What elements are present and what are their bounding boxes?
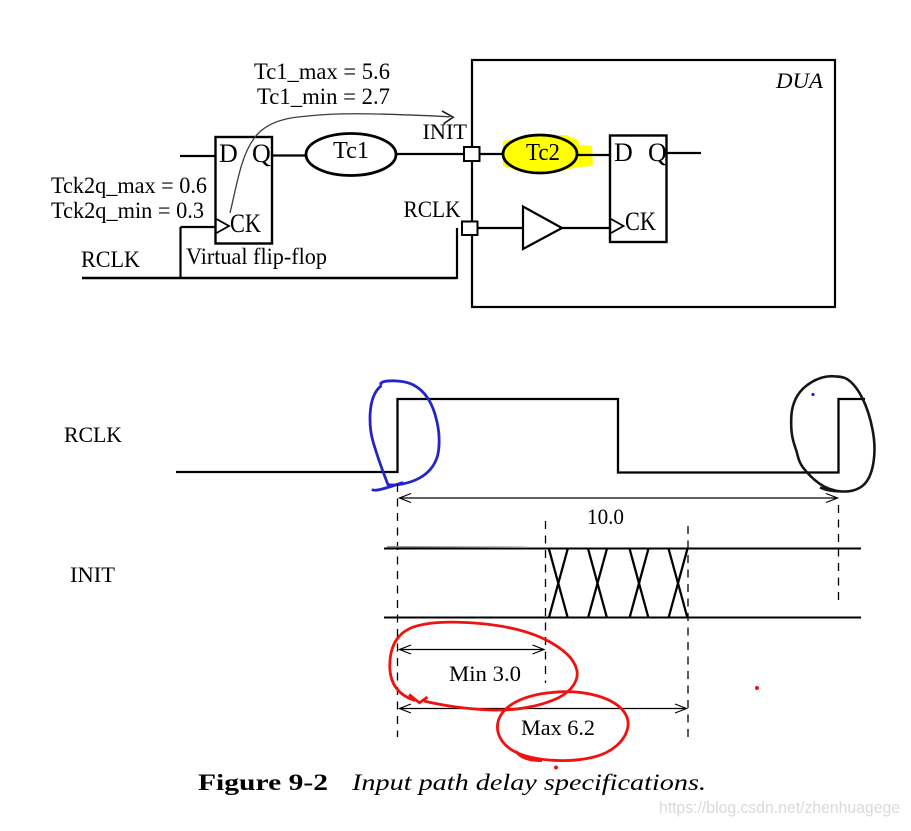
node INIT square [464,147,480,161]
svg-text:Virtual flip-flop: Virtual flip-flop [186,244,327,269]
wire INIT node to Tc2 [480,153,505,155]
svg-text:Tc1_min = 2.7: Tc1_min = 2.7 [257,84,390,109]
INIT bus top rail [384,548,861,550]
flip-flop U2 box [610,136,667,243]
curved annotation arrow from CK to INIT [230,114,450,213]
svg-text:Figure 9-2: Figure 9-2 [198,770,328,795]
red dot right [755,686,759,690]
svg-text:Q: Q [252,139,271,168]
svg-text:INIT: INIT [70,562,116,587]
svg-text:RCLK: RCLK [404,197,461,222]
INIT bus bottom rail [384,617,861,619]
dimension arrow 10.0 [400,494,838,503]
svg-text:Min 3.0: Min 3.0 [449,661,521,686]
wire vertical RCLK rail up to node [456,228,458,279]
INIT bus top rail ghost overlay [387,546,527,549]
wire Q of U1 to Tc1 [272,154,307,156]
delay element Tc1 ellipse [306,134,396,176]
red hand-drawn loop around Max 6.2 [497,692,628,761]
svg-text:D: D [219,139,238,168]
wire RCLK node to buffer [478,227,524,229]
svg-text:10.0: 10.0 [587,504,624,529]
clock triangle of U2 [611,219,624,233]
svg-text:Input path delay specification: Input path delay specifications. [351,770,706,795]
crosshatch X4 [669,549,688,619]
red dot below Max [554,766,558,770]
dashed line at min boundary [545,521,547,683]
svg-text:RCLK: RCLK [64,422,122,447]
svg-text:Max 6.2: Max 6.2 [521,715,595,740]
svg-text:RCLK: RCLK [81,247,140,272]
svg-text:Tck2q_max = 0.6: Tck2q_max = 0.6 [51,173,207,198]
crosshatch X2 [588,549,607,619]
wire Tc1 to INIT node [396,153,464,155]
wire Tc2 to D of U2 [577,154,610,156]
svg-text:CK: CK [230,209,261,238]
crosshatch X3 [630,549,649,619]
svg-text:Tck2q_min = 0.3: Tck2q_min = 0.3 [51,198,204,223]
dimension arrow Max 6.2 [400,704,687,713]
blue dot [811,393,814,396]
flip-flop U1 (virtual flip-flop) box [216,137,273,244]
crosshatch X1 [549,549,568,619]
delay element Tc2 ellipse [503,135,577,173]
wire D input stub of U1 [180,155,216,157]
svg-text:https://blog.csdn.net/zhenhuag: https://blog.csdn.net/zhenhuagege [659,798,900,817]
svg-text:D: D [614,138,633,167]
svg-text:Tc2: Tc2 [526,140,560,166]
black hand-drawn loop on right edge [791,376,874,491]
dimension arrow Min 3.0 [400,645,545,654]
buffer triangle [523,207,562,250]
svg-text:DUA: DUA [775,68,824,93]
dashed line at t0 [397,484,399,737]
wire buffer to CK of U2 [562,227,611,229]
wire RCLK bottom rail [82,277,457,280]
wire CK of U1 [181,226,217,228]
wire vertical from RCLK rail to CK of U1 [179,227,181,279]
DUA box [472,60,835,307]
svg-text:Tc1: Tc1 [333,138,369,164]
clock triangle of U1 [217,219,230,233]
node RCLK square [462,222,478,236]
blue hand-drawn loop on rising edge [370,381,439,490]
yellow highlight over Tc2 [503,135,593,171]
RCLK waveform [176,399,865,473]
dashed line at 10.0 end [838,505,840,600]
svg-text:Tc1_max = 5.6: Tc1_max = 5.6 [254,59,390,84]
svg-text:CK: CK [625,207,656,236]
svg-text:Q: Q [648,138,667,167]
wire Q of U2 output stub [667,152,702,154]
dashed line at max boundary [687,526,689,740]
red hand-drawn loop around Min 3.0 [390,622,577,710]
